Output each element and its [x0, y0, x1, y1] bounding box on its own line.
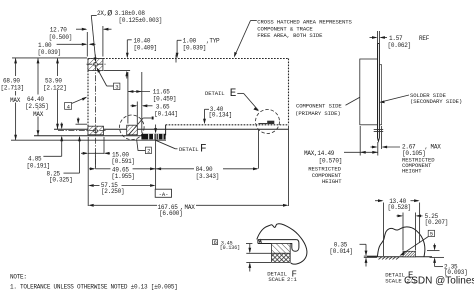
svg-text:2:1: 2:1	[287, 276, 298, 283]
svg-text:DETAIL: DETAIL	[179, 146, 199, 153]
svg-text:[0.125±0.003]: [0.125±0.003]	[119, 17, 163, 24]
dim 3.45 bracket	[213, 240, 218, 245]
ext verticals	[383, 203, 385, 257]
board top edge (dotted keepout)	[88, 58, 289, 60]
strip bevel tip	[378, 138, 380, 141]
top extension line to the left	[12, 57, 87, 59]
dim 11.65	[128, 91, 150, 93]
dim 53.90 line	[57, 59, 59, 130]
horizontal centerline bottom hole	[58, 130, 106, 132]
dim 13.40	[375, 200, 382, 202]
svg-text:[0.459]: [0.459]	[153, 95, 176, 102]
step at connector right shoulder	[165, 125, 167, 136]
svg-text:1. TOLERANCE UNLESS OTHERWISE: 1. TOLERANCE UNLESS OTHERWISE NOTED ±0.1…	[10, 283, 178, 290]
dim 64.40 line	[37, 59, 39, 136]
svg-text:SCALE: SCALE	[385, 277, 402, 284]
dim 5.25	[397, 215, 402, 217]
svg-text:2X,: 2X,	[97, 10, 107, 17]
text 64.40	[26, 95, 51, 109]
svg-text:[0.062]: [0.062]	[388, 42, 411, 49]
bottom-right keepout dotted edge	[166, 124, 289, 126]
connector body diagonal hatch	[272, 244, 291, 254]
bottom-left lower edge	[34, 135, 142, 137]
svg-text:12.70: 12.70	[50, 27, 67, 34]
break blob outline	[257, 224, 307, 264]
svg-text:[0.014]: [0.014]	[329, 248, 352, 255]
svg-text:E: E	[230, 88, 237, 100]
pcb plate	[258, 239, 297, 241]
surface hatch ticks	[379, 257, 400, 260]
horizontal centerline top hole	[87, 63, 106, 65]
svg-text:[0.325]: [0.325]	[49, 177, 72, 184]
svg-text:NOTE:: NOTE:	[10, 273, 27, 280]
keepout band line under corner box	[104, 70, 130, 72]
edge connector black bar	[141, 134, 165, 140]
bottom solid edge line	[54, 128, 289, 130]
svg-text:5: 5	[430, 231, 433, 238]
bottom tick 68.90 level	[11, 139, 166, 141]
svg-text:CSDN @Tolinese: CSDN @Tolinese	[404, 276, 474, 287]
svg-text:3: 3	[115, 84, 118, 91]
svg-text:(SECONDARY SIDE): (SECONDARY SIDE)	[410, 98, 462, 105]
svg-text:53.90: 53.90	[45, 78, 62, 85]
corner hatch box top-left	[88, 59, 103, 71]
boxed 5 label	[428, 230, 434, 236]
dim 68.90 line	[15, 59, 17, 141]
svg-text:FREE AREA, BOTH SIDE: FREE AREA, BOTH SIDE	[257, 32, 323, 39]
svg-text:[0.570]: [0.570]	[319, 157, 342, 164]
component bump in circle	[267, 121, 274, 124]
svg-text:MAX: MAX	[33, 111, 44, 118]
dim 1.57 REF	[377, 31, 379, 44]
svg-text:6: 6	[214, 239, 217, 246]
datum line and -A-	[155, 125, 157, 133]
svg-text:REF: REF	[419, 35, 430, 42]
svg-text:[0.136]: [0.136]	[220, 245, 240, 251]
pad cross hatch	[403, 251, 416, 256]
svg-text:DETAIL: DETAIL	[205, 90, 225, 97]
svg-text:[0.039]: [0.039]	[38, 49, 61, 56]
svg-text:,TYP: ,TYP	[206, 38, 220, 45]
svg-text:HEIGHT: HEIGHT	[402, 168, 422, 175]
board left edge	[87, 59, 89, 136]
svg-text:[2.713]: [2.713]	[1, 85, 24, 92]
svg-text:MAX: MAX	[185, 204, 196, 211]
svg-text:-A-: -A-	[159, 191, 169, 198]
svg-text:[2.535]: [2.535]	[25, 103, 48, 110]
svg-text:MAX: MAX	[431, 144, 442, 151]
svg-text:[2.122]: [2.122]	[43, 85, 66, 92]
DETAIL F label (main view)	[155, 140, 176, 149]
svg-text:[1.955]: [1.955]	[111, 173, 134, 180]
svg-text:[0.134]: [0.134]	[209, 112, 232, 119]
svg-text:[0.409]: [0.409]	[134, 44, 157, 51]
hatch box bottom-left corner	[88, 126, 104, 135]
svg-text:68.90: 68.90	[3, 78, 20, 85]
blob outline	[377, 227, 424, 257]
ext verticals below board	[87, 137, 89, 206]
svg-text:[0.528]: [0.528]	[388, 204, 411, 211]
pcb strip	[377, 44, 379, 139]
dim 3.65	[131, 105, 136, 107]
connector shoulder ticks	[374, 129, 384, 131]
detail F balloon circle	[120, 115, 145, 140]
row 167.65 MAX	[94, 204, 157, 206]
vertical centerline through holes	[94, 55, 96, 169]
tick ext of dotted edge	[76, 123, 88, 125]
row 57.15	[94, 185, 100, 187]
ext lines	[246, 252, 271, 254]
svg-text:F: F	[200, 143, 207, 155]
mounting hole top	[94, 62, 98, 66]
text 68.90	[2, 76, 26, 91]
dim 2.67 MAX	[371, 146, 377, 148]
solder side envelope	[379, 65, 381, 125]
svg-text:[0.500]: [0.500]	[49, 34, 72, 41]
svg-text:[0.191]: [0.191]	[27, 163, 50, 170]
svg-text:HEIGHT: HEIGHT	[322, 178, 342, 185]
row 49.65 / 84.90	[89, 168, 94, 170]
dim line to side view 14.49	[344, 151, 378, 153]
right lip hook	[290, 240, 299, 252]
svg-text:[0.039]: [0.039]	[183, 44, 206, 51]
svg-text:MAX,14.49: MAX,14.49	[304, 150, 335, 157]
svg-text:4.85: 4.85	[28, 156, 42, 163]
svg-text:[0.591]: [0.591]	[111, 158, 134, 165]
plate break notch	[259, 240, 262, 244]
dim 2.35	[427, 250, 440, 252]
boxed 3 label	[114, 83, 120, 89]
connector base cross hatch	[272, 253, 291, 262]
svg-text:[3.343]: [3.343]	[196, 173, 219, 180]
svg-text:[0.207]: [0.207]	[425, 219, 448, 226]
row 15.00	[81, 152, 87, 154]
detail E balloon circle	[256, 110, 280, 134]
svg-text:SCALE: SCALE	[268, 276, 285, 283]
svg-text:2: 2	[147, 148, 150, 155]
svg-text:[0.144]: [0.144]	[154, 110, 177, 117]
hatch box 2 (detail F area)	[127, 125, 138, 135]
svg-text:64.40: 64.40	[27, 96, 44, 103]
svg-text:COMPONENT SIDE: COMPONENT SIDE	[296, 102, 342, 109]
svg-text:[2.250]: [2.250]	[101, 188, 124, 195]
svg-text:(PRIMARY SIDE): (PRIMARY SIDE)	[295, 110, 341, 117]
svg-text:[6.600]: [6.600]	[159, 210, 182, 217]
svg-text:MAX: MAX	[10, 97, 21, 104]
boxed 4 label	[65, 103, 72, 110]
component envelope rect	[360, 59, 378, 125]
svg-text:Ø: Ø	[107, 9, 112, 19]
boxed 2 label	[145, 147, 151, 154]
small b flag	[152, 117, 154, 120]
ext lines	[127, 72, 129, 124]
board right edge	[288, 59, 290, 125]
mounting hole bottom	[94, 129, 98, 133]
text 53.90	[44, 76, 69, 90]
baseline	[367, 256, 432, 258]
